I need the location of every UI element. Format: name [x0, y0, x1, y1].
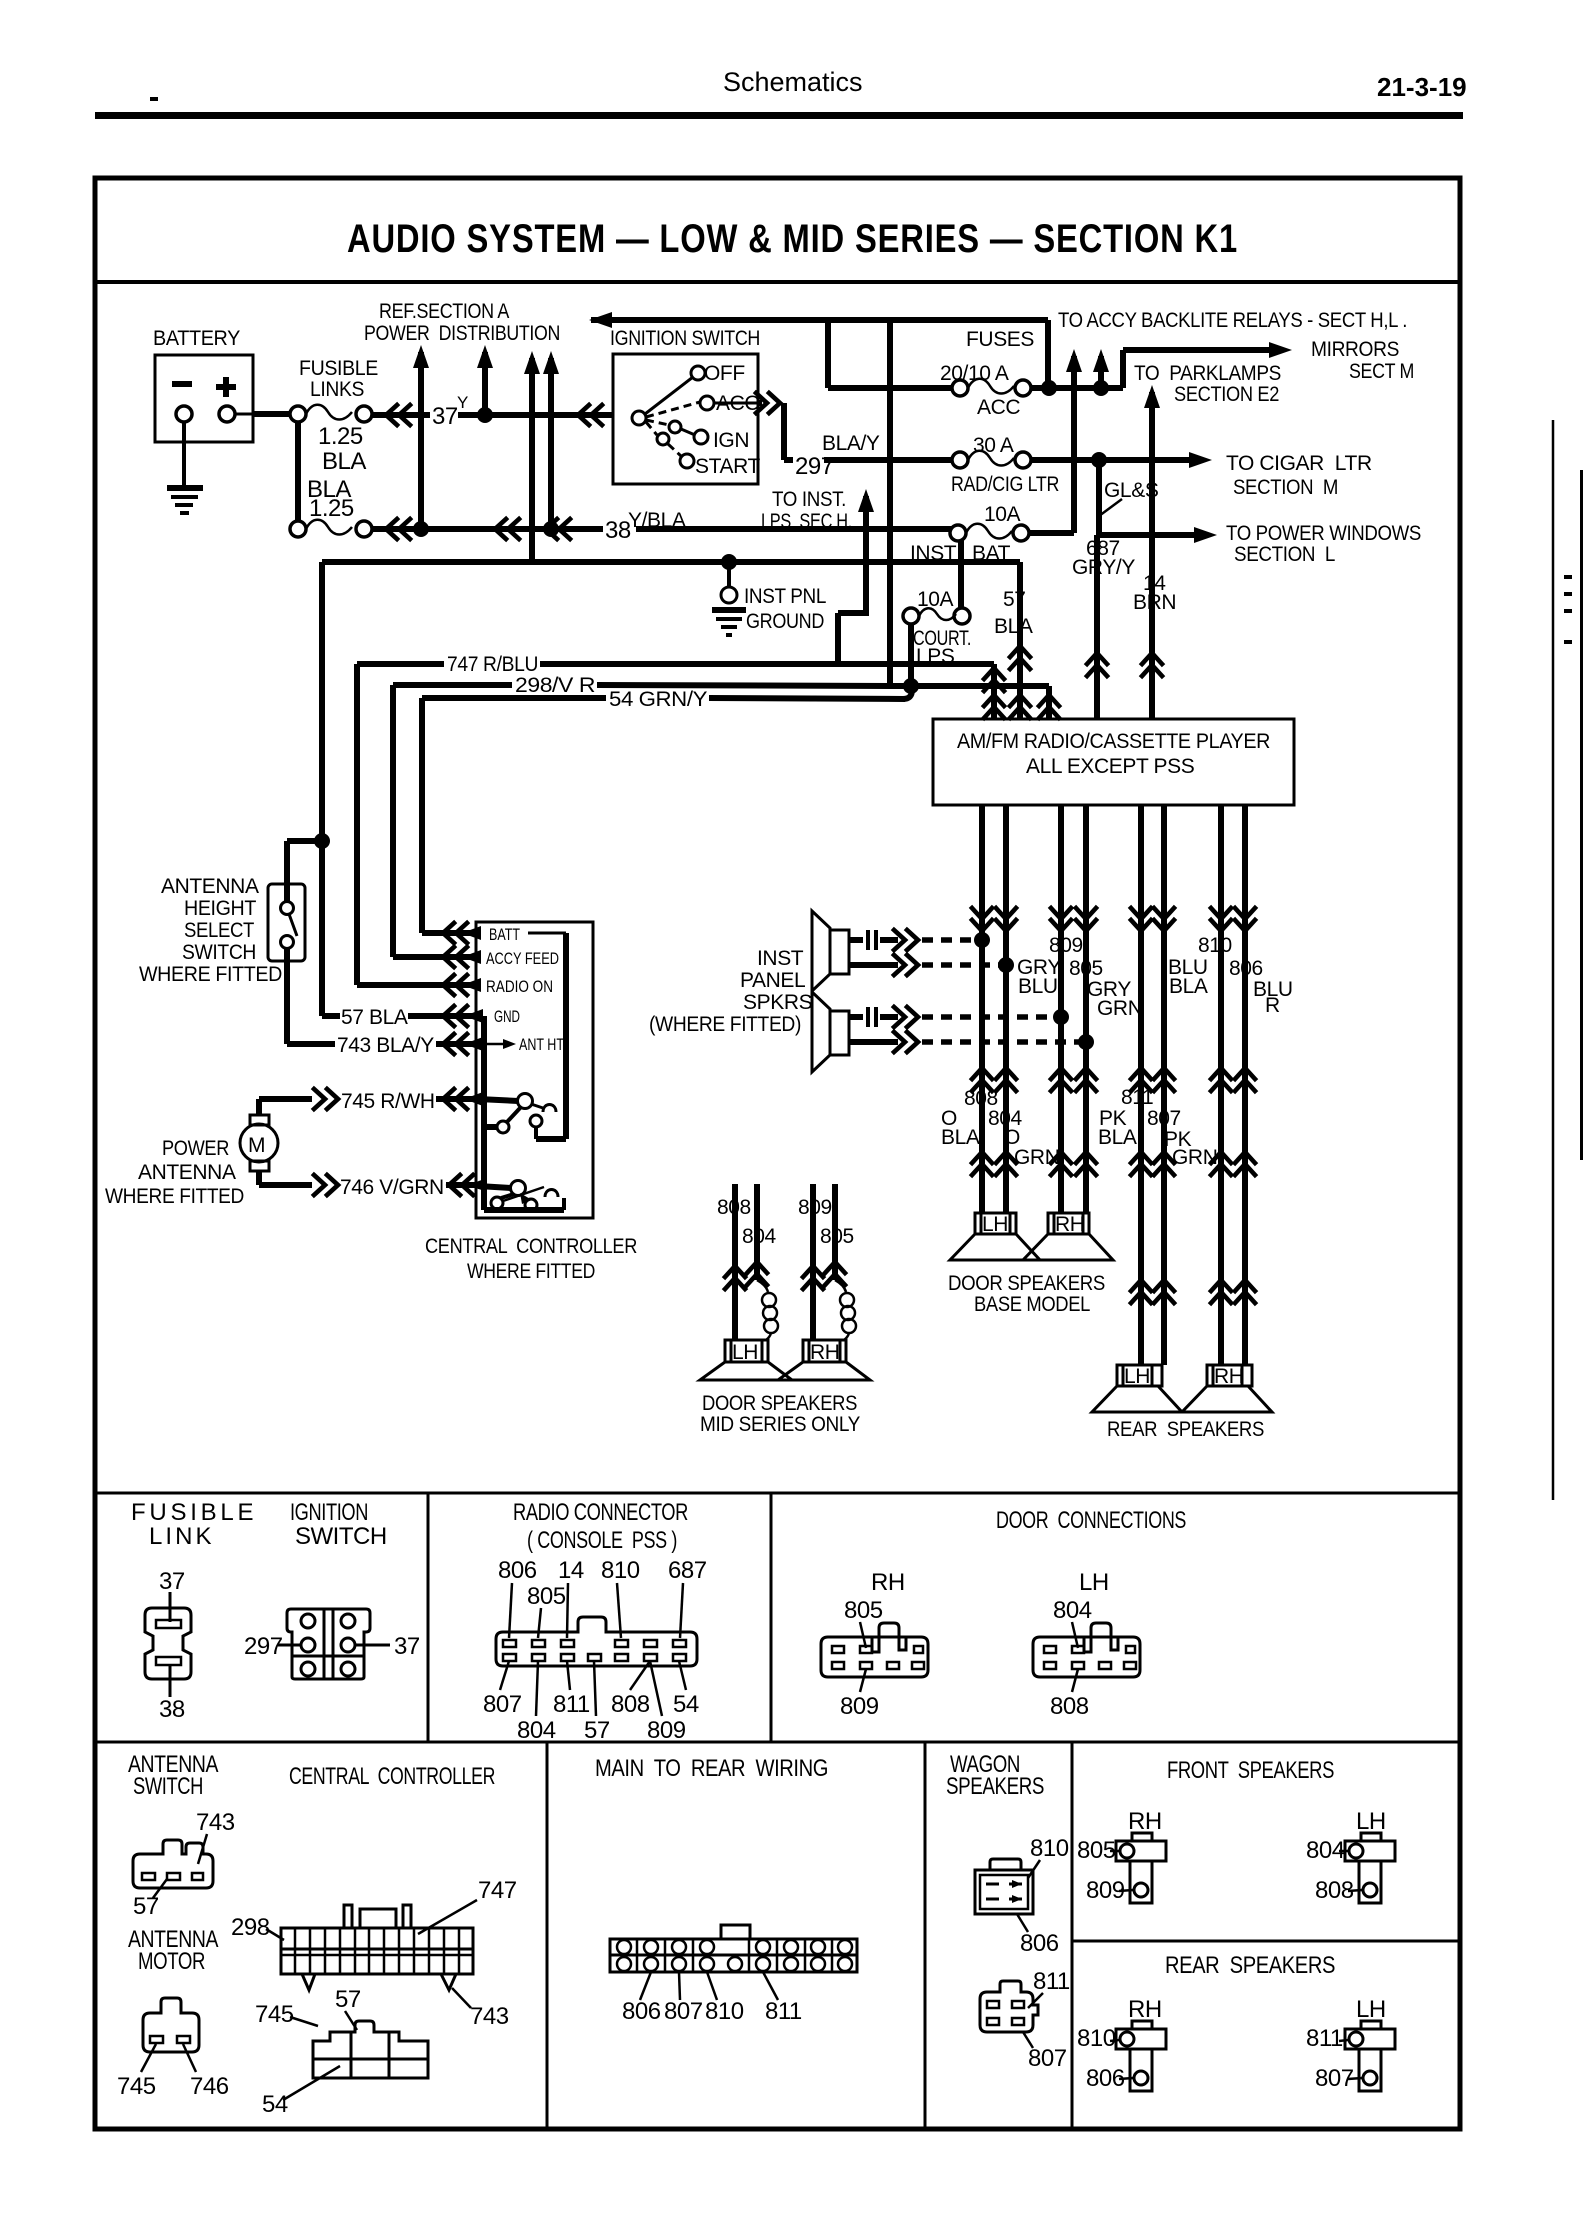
wire 687 GRY/Y down to radio: [1087, 535, 1107, 719]
wire radio out RR+: [1211, 805, 1231, 1365]
svg-text:RH: RH: [1128, 1996, 1162, 2023]
label 810 rear: [1077, 2025, 1119, 2052]
controller inner gnd vertical: [484, 1016, 564, 1210]
svg-text:WHERE FITTED: WHERE FITTED: [105, 1185, 244, 1208]
svg-text:CENTRAL CONTROLLER: CENTRAL CONTROLLER: [289, 1763, 495, 1790]
label inst panel spkrs: [649, 947, 813, 1036]
svg-text:804: 804: [1306, 1837, 1345, 1864]
door speaker base RH: [1023, 1213, 1113, 1260]
label 57 BLA gnd: [341, 1006, 408, 1029]
svg-text:809: 809: [1049, 934, 1083, 957]
label 809 mid: [798, 1196, 832, 1219]
label 804 front: [1306, 1837, 1348, 1864]
wire batt row into controller: [422, 923, 481, 943]
wire 745 R/WH motor to controller: [259, 1089, 518, 1115]
central controller connector small: [313, 2021, 428, 2078]
svg-text:746: 746: [190, 2073, 229, 2100]
svg-text:37: 37: [159, 1568, 185, 1595]
svg-text:RAD/CIG LTR: RAD/CIG LTR: [951, 473, 1059, 496]
label 54 GRN/Y: [609, 688, 707, 711]
fusible link F1 1.25 BLA: [290, 405, 372, 422]
svg-text:805: 805: [820, 1225, 854, 1248]
svg-text:SPKRS: SPKRS: [743, 991, 813, 1014]
wire link F1 to link F2 vertical: [295, 422, 301, 521]
svg-text:RH: RH: [810, 1341, 840, 1364]
radio connector leaders top: [509, 1583, 683, 1638]
svg-text:811: 811: [1033, 1968, 1070, 1995]
front speaker LH connector: [1345, 1808, 1395, 1903]
svg-text:GROUND: GROUND: [746, 610, 824, 633]
svg-text:54 GRN/Y: 54 GRN/Y: [609, 688, 707, 711]
label 804 mid: [742, 1225, 777, 1248]
svg-text:806: 806: [1086, 2065, 1125, 2092]
svg-text:57: 57: [584, 1717, 610, 1744]
label IGNITION SWITCH panel: [290, 1499, 387, 1550]
ground battery: [167, 488, 203, 513]
label 806 rear: [1086, 2065, 1133, 2092]
door speaker mid LH: [700, 1340, 792, 1380]
wire 747 R/BLU row: [357, 661, 911, 667]
radio connector body: [496, 1617, 697, 1666]
svg-text:810: 810: [705, 1998, 744, 2025]
svg-text:806: 806: [1229, 957, 1263, 980]
wire gnd row into controller: [322, 1006, 483, 1026]
label 54 panel: [262, 2066, 340, 2118]
svg-text:37: 37: [432, 403, 458, 430]
svg-text:GRY/Y: GRY/Y: [1072, 556, 1135, 579]
label 807 wagon: [1023, 2032, 1067, 2072]
wire from cigar junction down to power windows: [1099, 460, 1217, 543]
panel divider radio/door: [770, 1493, 773, 1742]
svg-text:LPS SEC H.: LPS SEC H.: [761, 510, 852, 533]
svg-text:SWITCH: SWITCH: [133, 1773, 203, 1800]
svg-text:804: 804: [517, 1717, 556, 1744]
central controller connector big: [281, 1905, 473, 1990]
wire mid series 804 with coil: [747, 1184, 778, 1340]
label 808 mid: [717, 1196, 751, 1219]
label 743 panel right: [452, 1988, 509, 2030]
wire 30A fuse output to cigar lighter: [1031, 452, 1212, 468]
label 10A court: [917, 588, 954, 611]
svg-text:WHERE FITTED: WHERE FITTED: [467, 1260, 595, 1283]
battery label: [153, 327, 240, 350]
svg-text:LH: LH: [1079, 1569, 1109, 1596]
svg-text:806: 806: [1020, 1930, 1059, 1957]
inst panel speaker SP2: [812, 992, 849, 1072]
wire radio out RF+: [1051, 805, 1071, 1213]
svg-text:808: 808: [1315, 1877, 1354, 1904]
ref section A power distribution label: [364, 300, 560, 345]
wire arrow to power distribution 2: [477, 345, 493, 415]
label Y/BLA: [628, 509, 686, 532]
title band separator: [95, 280, 1460, 284]
label 808 door: [1050, 1669, 1089, 1720]
svg-text:RH: RH: [871, 1569, 905, 1596]
controller internal batt feed: [536, 933, 566, 1139]
label TO ACCY BACKLITE RELAYS: [1058, 309, 1407, 332]
page number 21-3-19: [1377, 72, 1467, 102]
label ANTENNA SWITCH: [128, 1751, 218, 1800]
svg-text:806: 806: [498, 1557, 537, 1584]
radio connector labels bottom: [483, 1691, 699, 1744]
svg-text:Y/BLA: Y/BLA: [628, 509, 686, 532]
label 37: [432, 403, 458, 430]
svg-text:57 BLA: 57 BLA: [341, 1006, 408, 1029]
svg-text:10A: 10A: [984, 503, 1021, 526]
outer border box: [95, 178, 1460, 2129]
svg-text:37: 37: [394, 1633, 420, 1660]
scan artifact right edge line: [1553, 420, 1583, 1500]
label RH door: [871, 1569, 905, 1596]
pin ANT HT: [476, 1035, 564, 1054]
svg-text:54: 54: [673, 1691, 699, 1718]
wagon connector 2: [980, 1981, 1038, 2032]
label 809 gry blu: [1017, 934, 1083, 998]
svg-text:( CONSOLE PSS ): ( CONSOLE PSS ): [527, 1527, 677, 1554]
label FUSIBLE LINK: [131, 1499, 253, 1550]
label 809 front: [1086, 1877, 1133, 1904]
svg-text:811: 811: [1121, 1086, 1153, 1109]
label TO PARKLAMPS SECTION E2: [1134, 362, 1281, 406]
main to rear connector: [610, 1925, 857, 1972]
label CENTRAL CONTROLLER panel: [289, 1763, 495, 1790]
svg-text:REAR SPEAKERS: REAR SPEAKERS: [1107, 1418, 1264, 1441]
svg-text:SECTION L: SECTION L: [1234, 543, 1335, 566]
wire radio out LR+: [1131, 805, 1151, 1365]
label REAR SPEAKERS panel: [1165, 1952, 1335, 1979]
label 57 BLA: [994, 588, 1033, 638]
svg-text:LH: LH: [982, 1213, 1008, 1236]
label 811 rear: [1306, 2025, 1348, 2052]
rear speaker LH connector: [1345, 1996, 1395, 2091]
svg-text:21-3-19: 21-3-19: [1377, 72, 1467, 102]
wire dashed spkr2 minus to node: [922, 1039, 1082, 1045]
door connector LH: [1033, 1623, 1140, 1677]
label 57 small panel: [335, 1986, 361, 2030]
svg-text:REF.SECTION A: REF.SECTION A: [379, 300, 509, 323]
svg-text:38: 38: [159, 1696, 185, 1723]
label START: [695, 455, 760, 478]
label 805 mid: [820, 1225, 854, 1248]
svg-text:805: 805: [1069, 957, 1103, 980]
svg-text:LH: LH: [1356, 1996, 1386, 2023]
svg-text:BLA: BLA: [1169, 975, 1208, 998]
front speaker RH connector: [1116, 1808, 1166, 1903]
svg-text:DOOR SPEAKERS: DOOR SPEAKERS: [948, 1272, 1105, 1295]
power antenna motor M1: [240, 1115, 278, 1171]
title text: [347, 217, 1238, 261]
wire radio out LR-: [1154, 805, 1174, 1365]
wire ground vertical to gnd pin: [314, 562, 330, 1016]
labels 806 807 810 811: [622, 1998, 802, 2025]
wire arrow to accy backlite relays 2: [1093, 349, 1109, 388]
svg-text:743 BLA/Y: 743 BLA/Y: [337, 1034, 434, 1057]
label 37 conn: [355, 1633, 420, 1660]
wire main BAT vertical from accy line down to 298 line: [887, 320, 893, 686]
svg-text:805: 805: [1077, 1837, 1116, 1864]
wire radio on row into controller: [357, 975, 481, 995]
antenna height select switch S2: [268, 884, 305, 961]
svg-text:SELECT: SELECT: [184, 919, 255, 942]
wire 747 vertical to radio on: [354, 664, 360, 985]
label 743 BLA/Y: [337, 1034, 434, 1057]
svg-text:LINK: LINK: [149, 1523, 211, 1550]
svg-text:MID SERIES ONLY: MID SERIES ONLY: [700, 1413, 860, 1436]
wire accy feed line to backlite relays: [589, 312, 1048, 388]
label 14 BRN: [1133, 572, 1176, 614]
svg-text:BATT: BATT: [489, 925, 520, 944]
svg-text:810: 810: [1030, 1835, 1069, 1862]
svg-text:LH: LH: [732, 1341, 758, 1364]
svg-text:807: 807: [483, 1691, 522, 1718]
svg-text:805: 805: [844, 1597, 883, 1624]
svg-text:WHERE FITTED: WHERE FITTED: [139, 963, 282, 986]
label 808 front: [1315, 1877, 1362, 1904]
label 10A INST BAT: [984, 503, 1021, 526]
svg-text:BLA: BLA: [322, 448, 366, 475]
wire dashed spkr2 plus to node: [922, 1014, 1057, 1020]
wire inst spkr2 plus with capacitor: [849, 1007, 918, 1027]
wire 298/54 bus right into radio: [893, 678, 1059, 719]
svg-text:TO INST.: TO INST.: [772, 488, 846, 511]
label 687 GRY/Y: [1072, 537, 1135, 579]
wire arrow to power distribution 3: [524, 351, 540, 562]
svg-text:POWER: POWER: [162, 1137, 229, 1160]
wire to inst lps sec H arrow: [838, 489, 874, 664]
svg-text:745: 745: [117, 2073, 156, 2100]
wire ignition ACC output 297: [714, 393, 960, 460]
panel divider fusible/radio: [427, 1493, 430, 1742]
label 811 PK BLA: [1098, 1086, 1153, 1149]
fuse 30A RAD/CIG LTR: [952, 451, 1031, 468]
svg-text:808: 808: [1050, 1693, 1089, 1720]
header rule: [95, 97, 1463, 119]
label MIRRORS SECT M: [1311, 338, 1414, 383]
svg-text:BLA: BLA: [994, 615, 1033, 638]
label INST PNL GROUND: [744, 585, 826, 633]
label 805 gry grn: [1069, 957, 1142, 1020]
label FRONT SPEAKERS: [1167, 1757, 1334, 1784]
svg-text:57: 57: [133, 1893, 159, 1920]
svg-text:811: 811: [765, 1998, 802, 2025]
svg-text:SWITCH: SWITCH: [295, 1523, 387, 1550]
svg-text:Schematics: Schematics: [723, 67, 863, 97]
svg-text:1.25: 1.25: [318, 423, 363, 450]
label 810 wagon: [1028, 1835, 1069, 1878]
label 806 wagon: [1017, 1914, 1059, 1957]
svg-text:SECTION E2: SECTION E2: [1174, 383, 1279, 406]
svg-text:BATTERY: BATTERY: [153, 327, 240, 350]
svg-text:IGNITION SWITCH: IGNITION SWITCH: [610, 327, 760, 350]
fusible links label: [299, 357, 378, 401]
inst panel ground symbol: [712, 562, 746, 635]
svg-text:806: 806: [622, 1998, 661, 2025]
antenna height select switch label: [139, 875, 282, 986]
label 747 panel: [418, 1877, 517, 1934]
wire accy feed row into controller: [393, 947, 481, 967]
wire radio out RF-: [1076, 805, 1096, 1213]
svg-text:GL&S: GL&S: [1104, 479, 1159, 502]
svg-text:10A: 10A: [917, 588, 954, 611]
label 57 panel: [133, 1879, 167, 1920]
wire radio out LF+: [972, 805, 992, 1213]
svg-text:14: 14: [558, 1557, 584, 1584]
svg-text:297: 297: [244, 1633, 283, 1660]
svg-text:TO ACCY BACKLITE RELAYS - SECT: TO ACCY BACKLITE RELAYS - SECT H,L .: [1058, 309, 1407, 332]
svg-text:809: 809: [840, 1693, 879, 1720]
label 747 R/BLU: [447, 653, 538, 676]
panel divider main/wagon: [924, 1742, 927, 2129]
wire mid series 808: [725, 1184, 745, 1340]
svg-text:ANT HT: ANT HT: [519, 1035, 564, 1054]
wire inst spkr2 minus: [849, 1032, 918, 1052]
svg-text:DOOR CONNECTIONS: DOOR CONNECTIONS: [996, 1507, 1186, 1534]
label 38: [605, 517, 631, 544]
wire 14 BRN to parklamps: [1142, 385, 1162, 719]
svg-text:GND: GND: [494, 1007, 520, 1026]
svg-text:AM/FM RADIO/CASSETTE PLAYER: AM/FM RADIO/CASSETTE PLAYER: [957, 730, 1270, 753]
svg-text:TO POWER WINDOWS: TO POWER WINDOWS: [1226, 522, 1421, 545]
label 297 conn: [244, 1633, 301, 1660]
door connector RH: [821, 1623, 928, 1677]
label RAD/CIG LTR: [951, 473, 1059, 496]
label TO POWER WINDOWS SECTION L: [1226, 522, 1421, 566]
label TO INST LPS SEC H: [761, 488, 852, 533]
svg-text:MIRRORS: MIRRORS: [1311, 338, 1399, 361]
radio connector labels top: [498, 1557, 707, 1610]
ignition switch label: [610, 327, 760, 350]
svg-text:ALL EXCEPT PSS: ALL EXCEPT PSS: [1026, 755, 1195, 778]
wire 54 GRN/Y row: [422, 686, 912, 699]
svg-text:54: 54: [262, 2091, 288, 2118]
label BLA 1.25: [307, 476, 354, 522]
central controller box U1: [476, 922, 593, 1218]
rear speaker LH: [1092, 1365, 1182, 1412]
label 746 panel: [183, 2044, 229, 2100]
panel grid row1/row2 line: [95, 1741, 1460, 1744]
label 298/V R: [515, 674, 595, 697]
wire 746 V/GRN motor to controller: [259, 1171, 511, 1195]
label 38 bottom: [159, 1664, 185, 1723]
wire 298/V R row: [393, 685, 893, 686]
svg-text:298: 298: [231, 1914, 270, 1941]
svg-text:807: 807: [1028, 2045, 1067, 2072]
label WAGON SPEAKERS: [946, 1751, 1044, 1800]
svg-text:809: 809: [647, 1717, 686, 1744]
svg-text:297: 297: [795, 453, 834, 480]
label 810 blu bla: [1168, 934, 1232, 998]
svg-text:RH: RH: [1214, 1365, 1244, 1388]
label 811 wagon: [1028, 1968, 1070, 2008]
label OFF: [704, 362, 745, 385]
svg-text:805: 805: [527, 1583, 566, 1610]
svg-text:745: 745: [255, 2001, 294, 2028]
svg-text:LH: LH: [1124, 1365, 1150, 1388]
svg-text:ACCY FEED: ACCY FEED: [486, 949, 559, 968]
svg-text:M: M: [248, 1134, 265, 1157]
label MAIN TO REAR WIRING: [595, 1755, 828, 1782]
svg-text:745 R/WH: 745 R/WH: [341, 1090, 435, 1113]
svg-text:804: 804: [742, 1225, 777, 1248]
label 806 blu r: [1229, 957, 1293, 1017]
svg-text:743: 743: [196, 1809, 235, 1836]
rear speaker RH: [1182, 1365, 1272, 1412]
svg-text:LH: LH: [1356, 1808, 1386, 1835]
svg-text:RADIO CONNECTOR: RADIO CONNECTOR: [513, 1499, 688, 1526]
label 805 front: [1077, 1837, 1119, 1864]
fuse 10A COURT LPS: [903, 608, 970, 624]
svg-text:804: 804: [1053, 1597, 1092, 1624]
wire mid series 809: [803, 1184, 823, 1340]
wire mid series 805 with coil: [825, 1184, 856, 1340]
panel divider front/rear speakers: [1072, 1940, 1460, 1943]
label 807 PK GRN: [1147, 1107, 1217, 1169]
wire ACC fuse output: [1031, 342, 1292, 396]
wire 10A fuse output right to backlite vertical: [1029, 530, 1074, 536]
label 804 door: [1053, 1597, 1092, 1648]
label door speakers mid series only: [700, 1392, 860, 1436]
svg-text:ACC: ACC: [977, 396, 1020, 419]
svg-text:ANTENNA: ANTENNA: [161, 875, 259, 898]
label 298 panel: [231, 1914, 284, 1941]
radio connector leaders bottom: [500, 1661, 686, 1716]
svg-text:FRONT SPEAKERS: FRONT SPEAKERS: [1167, 1757, 1334, 1784]
label 743 panel: [196, 1809, 235, 1864]
label 805 door: [844, 1597, 883, 1648]
wire dashed spkr1 minus to node: [922, 962, 1002, 968]
page header text Schematics: [723, 67, 863, 97]
label LH door: [1079, 1569, 1109, 1596]
label 1.25 BLA: [318, 423, 366, 475]
svg-text:IGNITION: IGNITION: [290, 1499, 368, 1526]
svg-text:BLA: BLA: [1098, 1126, 1137, 1149]
svg-text:(WHERE FITTED): (WHERE FITTED): [649, 1013, 801, 1036]
fusible link connector: [145, 1608, 191, 1679]
svg-text:807: 807: [1147, 1107, 1181, 1130]
node junction dots on wire 38: [413, 521, 559, 537]
label ANTENNA MOTOR: [128, 1926, 218, 1975]
label ACC: [977, 396, 1020, 419]
battery B1: [155, 355, 253, 442]
svg-text:LINKS: LINKS: [310, 378, 364, 401]
wire radio out RR-: [1235, 805, 1255, 1365]
svg-text:GRN: GRN: [1097, 997, 1142, 1020]
svg-text:PANEL: PANEL: [740, 969, 805, 992]
antenna switch connector: [133, 1840, 213, 1888]
wire 54 vertical to batt: [419, 698, 425, 933]
svg-text:57: 57: [335, 1986, 361, 2013]
label BLA/Y 297 fuse 30A: [973, 434, 1014, 457]
pin RADIO ON: [486, 977, 553, 996]
label 804 O GRN: [988, 1107, 1059, 1169]
svg-text:38: 38: [605, 517, 631, 544]
antenna motor connector: [143, 1998, 199, 2052]
label GL&S with leader: [1099, 479, 1159, 516]
rear speaker RH connector: [1116, 1996, 1166, 2091]
svg-text:1.25: 1.25: [309, 495, 354, 522]
fusible link F2 BLA 1.25: [290, 520, 372, 537]
wire battery positive to fusible links: [235, 413, 291, 416]
door speaker base LH: [950, 1213, 1040, 1260]
node junction Y on wire 37: [477, 407, 493, 423]
svg-text:SWITCH: SWITCH: [182, 941, 256, 964]
svg-text:GRN: GRN: [1172, 1146, 1217, 1169]
svg-text:810: 810: [601, 1557, 640, 1584]
wire arrow to power distribution 1: [413, 345, 429, 529]
wire court lps fuse left down and right into radio: [911, 624, 1004, 719]
svg-text:BLA/Y: BLA/Y: [822, 432, 880, 455]
inst panel speaker SP1: [812, 911, 849, 991]
